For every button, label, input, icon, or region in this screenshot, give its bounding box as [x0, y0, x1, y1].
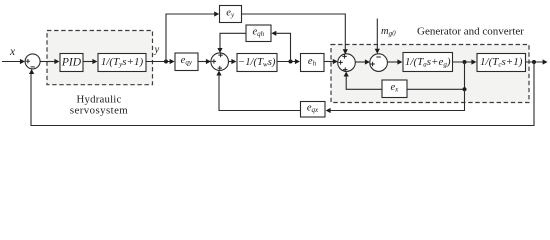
block 1/(Tcs+1)	[477, 54, 526, 72]
svg-text:mg0: mg0	[381, 26, 396, 38]
wire: servomotor output y to e_qy, node y	[146, 59, 175, 64]
block e_qy	[175, 53, 198, 71]
wire: input x into summing junction S1	[2, 59, 25, 64]
wire: S1 to PID	[40, 59, 59, 64]
wire: converter output, node out	[526, 59, 548, 64]
node label y	[153, 45, 159, 56]
svg-text:PID: PID	[61, 57, 82, 69]
wire: e_y to S3 top	[242, 14, 348, 54]
svg-text:1/(Tys+1): 1/(Tys+1)	[101, 56, 144, 69]
summing junction S4	[370, 54, 388, 72]
wire: y node up to e_y	[166, 11, 219, 61]
disturbance m_g0 into S4 top	[375, 19, 380, 54]
wire: outer feedback from output node to S1 bottom	[29, 62, 534, 126]
wire: turbine block to e_h, node H	[277, 59, 300, 64]
svg-text:servosystem: servosystem	[70, 105, 128, 117]
block 1/(Tys+1)	[98, 54, 146, 72]
svg-text:1/(Tcs+1): 1/(Tcs+1)	[480, 56, 523, 69]
wire: e_qx output to S2 bottom	[216, 71, 300, 111]
summing junction S3	[338, 54, 356, 72]
svg-text:x: x	[9, 46, 16, 58]
node label m_g0	[381, 26, 396, 38]
block 1/(Tas+eg)	[403, 53, 453, 72]
summing junction S1	[25, 54, 40, 69]
svg-text:Generator and converter: Generator and converter	[417, 25, 524, 37]
summing junction S2	[211, 53, 229, 71]
label Generator and converter	[417, 25, 524, 37]
block e_y	[220, 6, 242, 23]
dashed box: Generator and converter	[331, 45, 529, 103]
wire: e_x output to S3 bottom	[344, 72, 382, 90]
wire: generator block to converter block, node tap	[453, 59, 477, 64]
wire: tap node down to e_qx input	[326, 89, 465, 113]
block PID	[60, 54, 83, 72]
node label x	[9, 46, 16, 58]
svg-text:−1/(Tws): −1/(Tws)	[238, 56, 276, 69]
wire: e_h to summing junction S3	[324, 59, 338, 64]
label Hydraulic servosystem	[70, 94, 128, 117]
svg-text:y: y	[153, 45, 159, 56]
wire: e_qh output to S2 top	[217, 33, 246, 53]
wire: e_qy to summing junction S2	[198, 59, 211, 64]
block e_x	[382, 80, 407, 98]
wire: node H up to e_qh input	[271, 31, 290, 62]
block e_qx	[301, 102, 326, 118]
block e_h	[301, 54, 325, 72]
block -1/(Tws)	[237, 54, 277, 72]
block e_qh	[246, 25, 271, 42]
wire: PID to servomotor block	[83, 59, 97, 64]
dashed box: Hydraulic servosystem	[47, 31, 153, 85]
wire: S4 to generator block	[387, 59, 402, 64]
wire: tap node down to e_x input	[407, 62, 467, 91]
wire: S2 to turbine block	[229, 59, 237, 64]
wire: S3 to summing junction S4	[355, 59, 370, 64]
